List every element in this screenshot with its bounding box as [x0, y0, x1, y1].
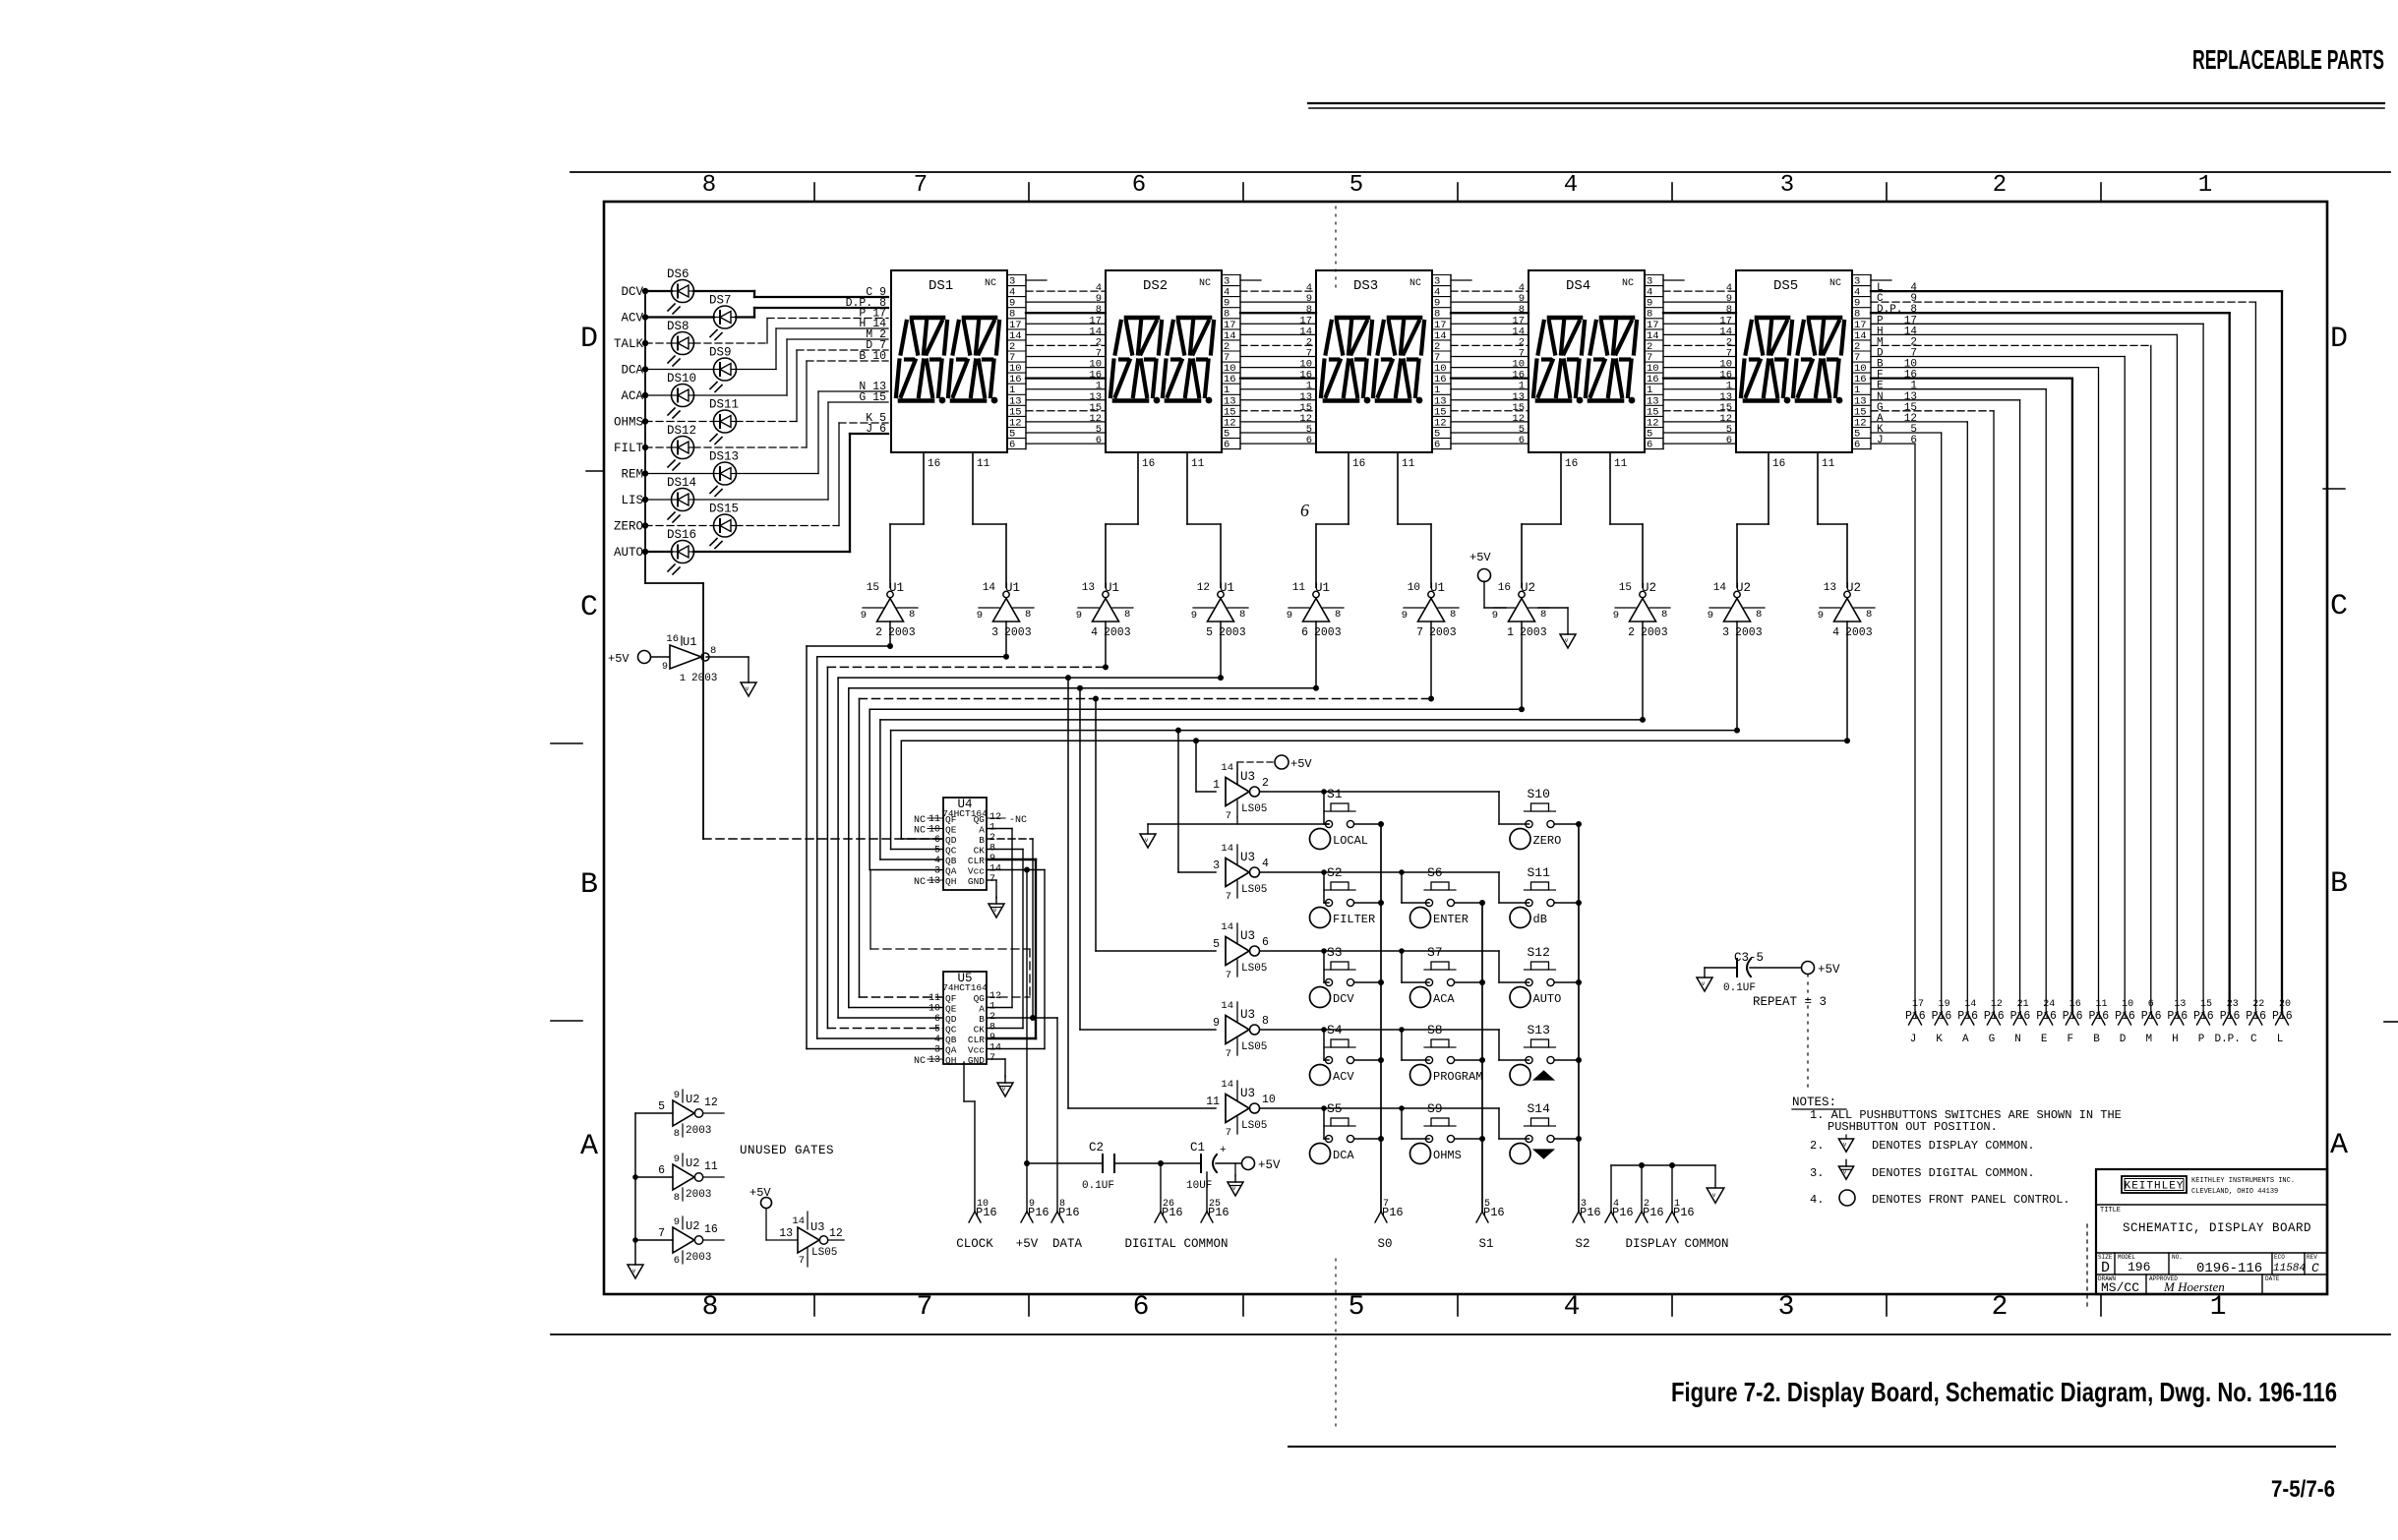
svg-text:14: 14 [1221, 1079, 1233, 1091]
16-segment display DS2 [1106, 270, 1222, 452]
capacitor C2 0.1UF [1024, 1141, 1201, 1192]
wire U4-U5 B tie [1032, 839, 1034, 1018]
svg-text:4: 4 [1091, 626, 1098, 639]
svg-text:11: 11 [704, 1160, 718, 1173]
svg-text:QE: QE [945, 1004, 957, 1015]
wire digit-select feed to U3 gate 5 [1065, 675, 1216, 1108]
wire driver U1.3 output down to bus [1003, 622, 1009, 660]
svg-text:U1: U1 [683, 635, 696, 649]
svg-text:11: 11 [2096, 999, 2108, 1010]
svg-text:J 6: J 6 [866, 423, 886, 436]
wire U4-U5 Vcc tie [1044, 870, 1046, 1049]
svg-text:P16: P16 [1984, 1010, 2005, 1023]
svg-text:S5: S5 [1327, 1101, 1343, 1116]
svg-text:S13: S13 [1528, 1023, 1550, 1037]
connector P16 pin 5 S1 [1476, 1199, 1505, 1222]
svg-text:2003: 2003 [1314, 626, 1342, 639]
svg-text:11: 11 [1292, 582, 1306, 594]
svg-text:9: 9 [1076, 610, 1082, 622]
svg-text:S3: S3 [1327, 945, 1343, 960]
wire display lead to driver U2 pin 15 [1610, 452, 1643, 588]
sheet border frame [604, 202, 2327, 1294]
wire DS5 segment B to connector P16 [1871, 359, 2099, 1013]
svg-text:TITLE: TITLE [2100, 1207, 2121, 1214]
svg-text:9: 9 [674, 1090, 680, 1101]
svg-text:8: 8 [1262, 1015, 1269, 1028]
pushbutton switch S11 (dB) [1525, 865, 1556, 907]
svg-text:U3: U3 [1240, 770, 1255, 784]
svg-text:22: 22 [2252, 999, 2264, 1010]
svg-text:D.P.: D.P. [2214, 1034, 2240, 1045]
svg-text:U3: U3 [1240, 929, 1255, 943]
connector P16 pin 9 +5V [1026, 870, 1028, 1213]
display DS5 pin 16 and pin 11 leads [1772, 458, 1835, 470]
wire digit-select feed to U3 gate 4 [1077, 685, 1216, 1030]
svg-text:8: 8 [710, 645, 716, 657]
svg-text:DS4: DS4 [1566, 278, 1590, 294]
LED DS15 (ZERO annunciator) [614, 423, 888, 549]
driver buffer U1 pin 11/6 (2003 array) [1287, 581, 1344, 639]
svg-text:DS10: DS10 [667, 372, 696, 385]
svg-text:20: 20 [2279, 999, 2291, 1010]
svg-text:S0: S0 [1377, 1237, 1392, 1251]
svg-text:OHMS: OHMS [1433, 1149, 1462, 1162]
LED DS10 (ACA annunciator) [621, 339, 888, 418]
svg-text:17: 17 [1912, 999, 1924, 1010]
svg-text:8: 8 [1866, 609, 1872, 621]
svg-text:13: 13 [929, 1055, 940, 1066]
svg-text:U1: U1 [1005, 581, 1020, 595]
svg-text:P16: P16 [1580, 1206, 1601, 1219]
svg-text:ECO: ECO [2274, 1254, 2285, 1261]
svg-text:11: 11 [1191, 458, 1205, 470]
svg-text:P16: P16 [1028, 1206, 1049, 1219]
svg-text:DENOTES DISPLAY COMMON.: DENOTES DISPLAY COMMON. [1872, 1139, 2035, 1153]
svg-text:DIGITAL COMMON: DIGITAL COMMON [1124, 1237, 1228, 1251]
svg-text:9: 9 [977, 610, 983, 622]
+5V supply at U3 gate 1 [1237, 755, 1312, 784]
svg-text:2003: 2003 [686, 1252, 711, 1264]
svg-text:ZERO: ZERO [1533, 834, 1562, 848]
svg-text:6: 6 [2148, 999, 2154, 1010]
svg-text:1: 1 [2210, 1292, 2227, 1323]
svg-text:9: 9 [1191, 610, 1197, 622]
wire driver U1.7 output down to bus [1428, 622, 1434, 702]
title block company text [2191, 1177, 2295, 1196]
svg-text:P16: P16 [2220, 1010, 2241, 1023]
svg-text:2: 2 [1628, 626, 1635, 639]
header double rule [1308, 103, 2384, 108]
svg-text:D: D [2101, 1260, 2110, 1276]
front panel indicator for S3 [1310, 987, 1355, 1008]
svg-text:2003: 2003 [691, 673, 717, 684]
wire display lead to driver U1 pin 14 [973, 452, 1006, 588]
svg-text:P16: P16 [2036, 1010, 2057, 1023]
svg-text:6: 6 [934, 1014, 940, 1025]
svg-text:5: 5 [1213, 938, 1220, 951]
svg-text:C2: C2 [1089, 1141, 1104, 1155]
driver buffer U2 pin 14/3 (2003 array) [1708, 581, 1765, 639]
svg-text:U2: U2 [686, 1156, 699, 1170]
row 1 wire gate1 to ground branch [1148, 823, 1329, 825]
svg-text:A: A [979, 1004, 985, 1015]
svg-text:QG: QG [974, 814, 986, 825]
svg-text:NC: NC [1199, 278, 1211, 289]
U5 output stub wires A B CK CLR Vcc [987, 1008, 1057, 1049]
+5V supply to driver U2 pin 9 [1469, 551, 1506, 608]
ground digital common below U5 [987, 1059, 1013, 1096]
svg-text:14: 14 [1713, 582, 1727, 594]
svg-text:DS12: DS12 [667, 424, 696, 438]
svg-text:G 15: G 15 [859, 391, 886, 404]
display DS3 pin number column [1432, 275, 1471, 451]
svg-text:QE: QE [945, 825, 957, 836]
svg-text:7: 7 [799, 1255, 805, 1267]
svg-text:QH: QH [945, 1055, 956, 1066]
svg-text:6: 6 [1306, 435, 1312, 446]
fold mark dashed line center top [1335, 207, 1337, 287]
svg-text:7: 7 [1226, 891, 1231, 903]
svg-text:1: 1 [1507, 626, 1514, 639]
right margin zone letters D C B A [2330, 323, 2348, 1162]
svg-text:S4: S4 [1327, 1023, 1343, 1037]
svg-text:4: 4 [1564, 1292, 1581, 1323]
svg-text:15: 15 [867, 582, 879, 594]
wire DS5 segment A to connector P16 [1871, 413, 1967, 1013]
top ruler tick marks [814, 183, 2101, 202]
svg-text:8: 8 [1124, 609, 1130, 621]
svg-text:8: 8 [674, 1128, 680, 1140]
svg-text:C: C [2330, 590, 2348, 623]
svg-text:DS7: DS7 [709, 294, 732, 308]
connector P16 pin 26 digital common [1160, 1163, 1162, 1212]
label UNUSED GATES [740, 1144, 834, 1157]
wire S11 to column bus [1554, 900, 1582, 906]
svg-text:U2: U2 [1642, 581, 1656, 595]
svg-text:3: 3 [934, 1045, 940, 1056]
svg-text:P16: P16 [2063, 1010, 2083, 1023]
svg-text:DS11: DS11 [709, 398, 739, 412]
wire DS5 segment H to connector P16 [1871, 326, 2177, 1013]
svg-text:3: 3 [1778, 1292, 1795, 1323]
svg-text:9: 9 [662, 662, 668, 673]
pushbutton switch S13 (UP) [1525, 1023, 1556, 1064]
svg-text:REPEAT = 3: REPEAT = 3 [1753, 995, 1827, 1009]
svg-text:16: 16 [2069, 999, 2081, 1010]
wire S9 to column bus [1455, 1136, 1485, 1142]
front panel indicator for S1 [1310, 829, 1369, 850]
svg-text:PUSHBUTTON OUT POSITION.: PUSHBUTTON OUT POSITION. [1828, 1120, 1998, 1134]
svg-text:3: 3 [1722, 626, 1729, 639]
note 2 display common symbol [1838, 1135, 1853, 1152]
svg-text:23: 23 [2227, 999, 2239, 1010]
svg-text:2: 2 [1993, 172, 2007, 199]
svg-text:U1: U1 [889, 581, 904, 595]
svg-text:12: 12 [829, 1227, 843, 1240]
connector P16 pin 1 display common [1666, 1199, 1695, 1222]
LED DS16 (AUTO annunciator) [614, 434, 888, 574]
svg-text:REM: REM [621, 468, 643, 482]
svg-text:3: 3 [991, 626, 998, 639]
svg-text:dB: dB [1533, 913, 1547, 926]
svg-text:11: 11 [929, 993, 940, 1004]
display common bracket wire [1611, 1162, 1715, 1212]
svg-text:16: 16 [1142, 458, 1155, 470]
svg-text:14: 14 [1221, 1000, 1233, 1012]
pushbutton switch S10 (ZERO) [1525, 787, 1556, 828]
svg-text:UNUSED GATES: UNUSED GATES [740, 1144, 834, 1157]
display DS2 pin number column [1222, 275, 1261, 451]
svg-text:9: 9 [1213, 1017, 1220, 1030]
ground display common on switch row 1 [1140, 817, 1237, 848]
svg-text:NC: NC [985, 278, 996, 289]
top ruler zone numbers 8-1 [702, 172, 2212, 199]
svg-text:P: P [2198, 1034, 2205, 1045]
svg-text:P16: P16 [2115, 1010, 2135, 1023]
svg-text:KEITHLEY: KEITHLEY [2125, 1181, 2185, 1193]
svg-text:QG: QG [974, 993, 986, 1004]
svg-text:LS05: LS05 [1241, 884, 1267, 896]
svg-text:P16: P16 [2010, 1010, 2031, 1023]
svg-text:D: D [2330, 323, 2348, 356]
svg-text:A: A [2330, 1129, 2348, 1162]
svg-text:v: v [632, 1268, 636, 1274]
svg-text:B: B [2093, 1034, 2100, 1045]
wire S2 to column bus [1354, 900, 1384, 906]
svg-text:DENOTES DIGITAL COMMON.: DENOTES DIGITAL COMMON. [1872, 1166, 2035, 1180]
U4 output stub wires A B CK CLR Vcc [987, 829, 1045, 873]
svg-text:2003: 2003 [888, 626, 916, 639]
svg-text:8: 8 [1450, 609, 1456, 621]
wire S5 to column bus [1354, 1136, 1384, 1142]
note 4 front panel circle symbol [1839, 1190, 1855, 1206]
svg-text:6: 6 [1910, 435, 1917, 446]
pushbutton switch S4 (ACV) [1324, 1023, 1355, 1064]
svg-text:DISPLAY COMMON: DISPLAY COMMON [1625, 1237, 1728, 1251]
svg-text:U2: U2 [1846, 581, 1861, 595]
svg-text:NC: NC [914, 826, 926, 837]
svg-text:P16: P16 [1673, 1206, 1695, 1219]
wire segment-drive bus line 4 (driver to shift register) [838, 678, 1221, 1018]
svg-text:AUTO: AUTO [614, 546, 643, 560]
svg-text:6: 6 [1132, 172, 1146, 199]
svg-text:P16: P16 [1162, 1206, 1183, 1219]
svg-text:4: 4 [1564, 172, 1578, 199]
svg-text:11: 11 [929, 814, 940, 825]
LED DS8 (TALK annunciator) [614, 319, 888, 367]
svg-text:3: 3 [934, 866, 940, 877]
svg-text:DS3: DS3 [1353, 278, 1378, 294]
notes text block [1792, 1096, 2122, 1207]
bottom ruler line [551, 1333, 2390, 1335]
svg-text:6: 6 [674, 1255, 680, 1267]
connector P16 pin 8 DATA [1056, 1018, 1058, 1212]
svg-text:J: J [1910, 1034, 1917, 1045]
svg-text:NC: NC [914, 877, 926, 888]
svg-text:21: 21 [2017, 999, 2029, 1010]
svg-text:N: N [2014, 1034, 2021, 1045]
svg-text:2003: 2003 [686, 1125, 711, 1137]
title block outline [2096, 1169, 2327, 1294]
open-collector gate U3 pin 5/6 (LS05) [1213, 921, 1269, 981]
wire S10 to column bus [1554, 821, 1582, 827]
wire digit-select feed to U3 gate 1 [1193, 738, 1216, 792]
driver buffer U1 pin 14/3 (2003 array) [977, 581, 1034, 639]
svg-text:7: 7 [917, 1292, 933, 1323]
svg-text:6: 6 [934, 835, 940, 846]
unused gate U2 pin 5/12 [635, 1090, 724, 1140]
svg-text:P16: P16 [2272, 1010, 2293, 1023]
open-collector gate U3 pin 9/8 (LS05) [1213, 1000, 1269, 1060]
svg-text:9: 9 [1287, 610, 1292, 622]
unused gate U3 pin 13/12 [779, 1212, 844, 1267]
svg-text:B: B [580, 868, 598, 902]
svg-text:8: 8 [702, 172, 716, 199]
svg-text:M: M [2145, 1034, 2152, 1045]
svg-text:S12: S12 [1528, 945, 1550, 960]
svg-text:6: 6 [1009, 440, 1015, 451]
svg-text:16: 16 [1565, 458, 1578, 470]
wire DS5 segment C to connector P16 [1871, 293, 2255, 1013]
LED DS14 (LIS annunciator) [621, 402, 888, 522]
DS1 left segment pin labels [846, 286, 887, 436]
wire display lead to driver U1 pin 12 [1187, 452, 1221, 588]
svg-text:DCA: DCA [621, 364, 643, 378]
wire DS5 segment D to connector P16 [1871, 348, 2125, 1014]
svg-text:16: 16 [1498, 582, 1511, 594]
svg-text:AUTO: AUTO [1533, 992, 1562, 1006]
svg-text:8: 8 [674, 1192, 680, 1204]
svg-text:4.: 4. [1810, 1193, 1824, 1207]
svg-text:C: C [2311, 1261, 2319, 1275]
svg-text:1: 1 [2198, 172, 2212, 199]
ground display common at bracket [1707, 1188, 1724, 1203]
svg-text:+5V: +5V [1258, 1158, 1281, 1172]
svg-text:S8: S8 [1427, 1023, 1443, 1037]
wire DS5 segment M to connector P16 [1871, 336, 2151, 1013]
LED DS11 (OHMS annunciator) [614, 350, 888, 444]
svg-text:74HCT164: 74HCT164 [942, 982, 988, 993]
svg-text:8: 8 [1756, 609, 1762, 621]
svg-text:Vcc: Vcc [968, 1045, 985, 1056]
svg-text:QC: QC [945, 1025, 957, 1036]
note 3 digital common symbol [1838, 1159, 1853, 1179]
svg-text:P16: P16 [2193, 1010, 2214, 1023]
wire DS5 segment E to connector P16 [1871, 381, 2046, 1013]
pushbutton switch S9 (OHMS) [1424, 1101, 1456, 1143]
display DS5 pin number column [1852, 275, 1891, 451]
svg-text:L: L [2277, 1034, 2284, 1045]
svg-text:9: 9 [674, 1154, 680, 1165]
wire segment-drive bus line 8 (driver to shift register) [880, 720, 1643, 859]
wire display lead to driver U1 pin 11 [1316, 452, 1349, 588]
svg-text:16: 16 [1772, 458, 1785, 470]
svg-text:DS13: DS13 [709, 450, 739, 464]
wire digit-select feed to U3 gate 2 [1175, 728, 1216, 872]
svg-text:QB: QB [945, 1035, 957, 1045]
svg-text:ACV: ACV [1333, 1070, 1354, 1084]
wire DS5 segment P to connector P16 [1871, 315, 2203, 1013]
front panel indicator for S11 [1510, 908, 1547, 928]
svg-text:2003: 2003 [1004, 626, 1032, 639]
svg-text:FILTER: FILTER [1333, 913, 1375, 926]
segment bus wires DS4 to DS5 [1663, 282, 1736, 446]
svg-text:B 10: B 10 [859, 350, 886, 363]
svg-text:4: 4 [1262, 858, 1269, 870]
svg-text:9: 9 [1708, 610, 1713, 622]
svg-text:P16: P16 [1612, 1206, 1634, 1219]
column bus wire S1 [1481, 903, 1483, 1212]
display DS4 pin number column [1645, 275, 1684, 451]
svg-text:DS14: DS14 [667, 476, 696, 490]
svg-text:v: v [1565, 637, 1569, 644]
svg-text:QA: QA [945, 866, 957, 877]
svg-text:3.: 3. [1810, 1166, 1824, 1180]
svg-text:TALK: TALK [614, 337, 644, 351]
wire DS5 segment F to connector P16 [1871, 370, 2072, 1013]
svg-text:10: 10 [1262, 1094, 1276, 1106]
svg-text:6: 6 [1262, 936, 1269, 949]
16-segment display DS3 [1316, 270, 1432, 452]
wire display lead to driver U1 pin 13 [1106, 452, 1138, 588]
svg-text:M Hoersten: M Hoersten [2163, 1279, 2225, 1294]
svg-text:7: 7 [914, 172, 928, 199]
svg-text:5: 5 [1349, 1292, 1365, 1323]
svg-text:LIS: LIS [621, 494, 643, 507]
svg-text:KEITHLEY INSTRUMENTS INC.: KEITHLEY INSTRUMENTS INC. [2191, 1177, 2295, 1185]
front panel indicator for S10 [1510, 829, 1561, 850]
svg-text:2: 2 [1992, 1292, 2008, 1323]
svg-text:F: F [2067, 1034, 2073, 1045]
svg-text:11: 11 [1402, 458, 1415, 470]
svg-text:2: 2 [1262, 777, 1269, 790]
svg-text:LS05: LS05 [1241, 1120, 1267, 1132]
fold mark dashed line center bottom [1335, 1259, 1337, 1428]
wire segment-drive bus line 10 (driver to shift register) [901, 740, 1847, 839]
svg-text:9: 9 [1492, 610, 1498, 622]
svg-text:2003: 2003 [1104, 626, 1131, 639]
svg-text:16: 16 [704, 1223, 718, 1236]
svg-text:3: 3 [1213, 859, 1220, 872]
svg-text:P16: P16 [1905, 1010, 1926, 1023]
ground display common at driver U2 pin 1 [1538, 608, 1576, 648]
svg-text:16: 16 [928, 458, 940, 470]
svg-text:QA: QA [945, 1045, 957, 1056]
LED DS7 (ACV annunciator) [621, 294, 888, 340]
svg-text:NC: NC [1622, 278, 1634, 289]
svg-text:2003: 2003 [1219, 626, 1246, 639]
front panel indicator for S7 [1410, 987, 1456, 1008]
wire U3 gate 5 output row to switches [1260, 1105, 1529, 1139]
unused gate U2 pin 6/11 [632, 1154, 724, 1204]
svg-text:7-5/7-6: 7-5/7-6 [2271, 1476, 2335, 1503]
svg-text:U3: U3 [1240, 1087, 1255, 1100]
svg-text:Figure 7-2. Display Board, Sch: Figure 7-2. Display Board, Schematic Dia… [1671, 1377, 2337, 1407]
svg-text:J: J [1877, 435, 1884, 446]
svg-text:P16: P16 [1208, 1206, 1229, 1219]
pushbutton switch S14 (DOWN) [1525, 1101, 1556, 1143]
svg-text:PROGRAM: PROGRAM [1433, 1070, 1482, 1084]
wire segment-drive bus line 3 (driver to shift register) [827, 667, 1106, 1028]
front panel indicator for S14 [1510, 1144, 1554, 1164]
wire U3 gate 4 output row to switches [1260, 1027, 1529, 1060]
svg-text:9: 9 [1818, 610, 1824, 622]
svg-text:2003: 2003 [1641, 626, 1668, 639]
driver buffer U1 pin 12/5 (2003 array) [1191, 581, 1248, 639]
open-collector gate U3 pin 1/2 (LS05) [1213, 762, 1269, 822]
svg-text:8: 8 [1025, 609, 1031, 621]
wire U4-U5 A tie [1011, 829, 1013, 1008]
